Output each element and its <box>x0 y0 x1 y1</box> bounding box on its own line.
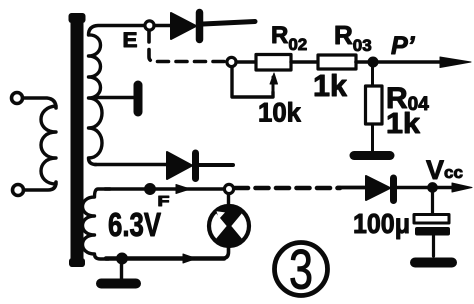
wire F rail <box>105 187 224 191</box>
node ground tap <box>117 253 127 263</box>
wire node E to D1 <box>154 24 171 27</box>
transformer core <box>69 13 86 267</box>
svg-text:F: F <box>158 193 170 210</box>
wire D1 output <box>203 22 255 25</box>
center tap terminal bar <box>134 85 143 112</box>
wire into D3 <box>338 186 366 190</box>
svg-text:3: 3 <box>289 238 313 301</box>
dashed wire lamp node to D3 <box>235 186 340 191</box>
node pot input <box>227 57 236 66</box>
wire lamp top <box>227 194 230 206</box>
resistor R04 <box>366 86 383 124</box>
svg-text:6.3V: 6.3V <box>108 206 161 243</box>
node lamp top <box>224 184 233 193</box>
svg-text:Vcc: Vcc <box>426 155 463 185</box>
primary terminal bottom <box>13 185 24 196</box>
resistor R03 <box>318 55 356 69</box>
svg-text:R03: R03 <box>334 20 372 55</box>
ground capacitor <box>415 258 452 268</box>
figure number 3 <box>275 238 328 301</box>
arrow on bottom rail <box>183 254 196 263</box>
wire to R02 <box>236 60 255 63</box>
primary terminal top <box>12 93 23 104</box>
potentiometer R02 body <box>256 55 291 71</box>
diode D3 <box>366 176 394 201</box>
primary winding <box>41 106 56 184</box>
wire winding to D2 <box>95 163 166 167</box>
wire to ground 6.3V <box>120 263 123 279</box>
wire D2 output <box>199 163 233 167</box>
node F <box>145 184 155 194</box>
capacitor C 100u <box>414 192 450 256</box>
wire bottom rail <box>106 256 224 261</box>
svg-text:100μ: 100μ <box>353 208 410 239</box>
svg-text:1k: 1k <box>313 68 348 103</box>
center tap wire <box>96 96 134 100</box>
diode D1 <box>171 13 200 40</box>
svg-text:E: E <box>123 29 138 52</box>
wire lamp bottom <box>222 246 229 259</box>
diode D2 <box>167 152 196 179</box>
svg-text:10k: 10k <box>258 98 302 128</box>
svg-text:1k: 1k <box>386 108 421 140</box>
R02 wiper arrow <box>272 77 275 92</box>
node P' <box>368 57 378 67</box>
dashed wire node E to pot input node <box>149 31 226 62</box>
node E <box>145 21 154 30</box>
ground 6.3V <box>101 279 136 289</box>
R02 wiper loop wire <box>232 67 273 97</box>
ground R04 <box>354 151 390 160</box>
wire R04 to ground <box>371 124 374 152</box>
output arrow P' <box>356 57 471 68</box>
svg-text:P’: P’ <box>391 32 416 60</box>
wire primary top <box>23 98 56 108</box>
node Vcc <box>428 183 437 192</box>
arrow on F rail <box>176 185 190 194</box>
output arrow Vcc <box>437 183 472 192</box>
wire D3 to node Vcc <box>397 186 428 189</box>
wire primary bottom <box>24 182 56 190</box>
secondary winding 6.3V <box>83 189 111 259</box>
wire node P' to R04 <box>371 62 374 86</box>
wire R02 to R03 <box>291 60 318 63</box>
secondary winding upper <box>89 26 146 165</box>
lamp L1 <box>209 206 249 246</box>
svg-text:R02: R02 <box>271 22 307 54</box>
